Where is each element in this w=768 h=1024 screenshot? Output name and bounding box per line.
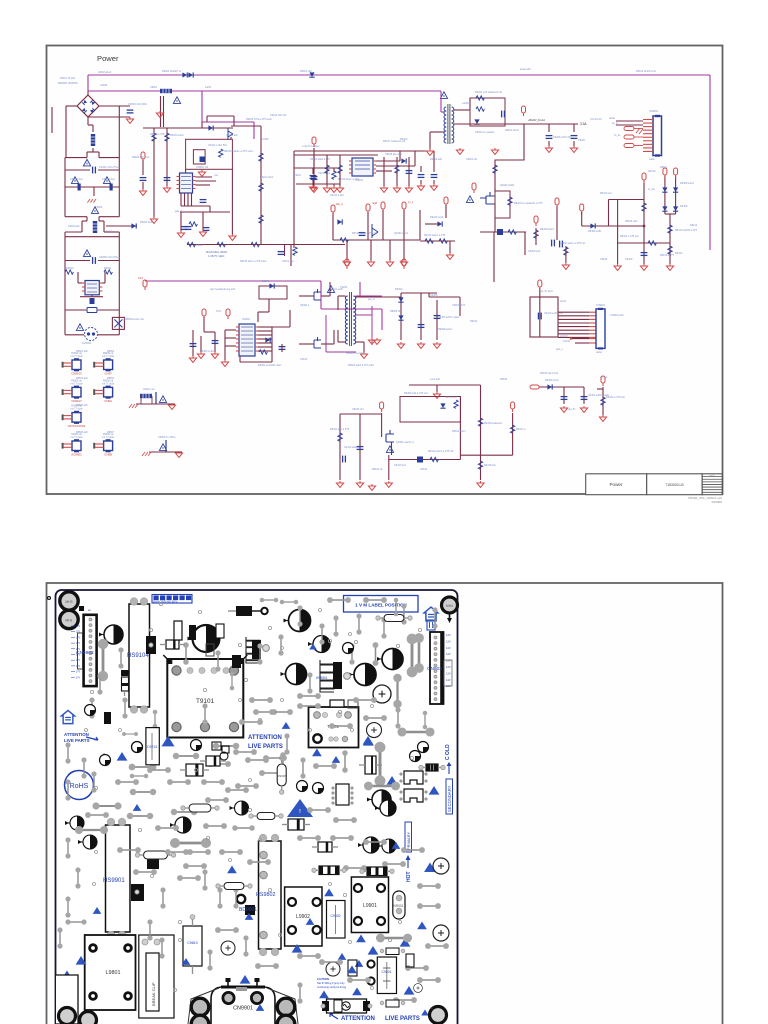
svg-text:17V: 17V	[76, 637, 81, 639]
svg-text:L9004 a20: L9004 a20	[68, 225, 80, 228]
svg-text:mit 77 dcde: mit 77 dcde	[70, 408, 83, 411]
svg-text:3.3A: 3.3A	[580, 122, 587, 126]
svg-text:R9048: R9048	[278, 774, 287, 778]
svg-text:1 V M LABEL POSITION: 1 V M LABEL POSITION	[355, 603, 407, 608]
svg-text:vd_det: vd_det	[600, 376, 608, 379]
svg-text:D9305 sbr: D9305 sbr	[390, 310, 401, 313]
svg-text:D9301 ss14de0 dasc: D9301 ss14de0 dasc	[258, 364, 282, 367]
svg-text:12V: 12V	[446, 671, 451, 675]
svg-text:D9004 dcde: D9004 dcde	[140, 221, 154, 224]
svg-text:CN902: CN902	[427, 666, 442, 672]
svg-text:R9330: R9330	[500, 378, 508, 381]
svg-text:AC1: AC1	[138, 276, 144, 280]
svg-text:mit 77 dcde: mit 77 dcde	[102, 436, 115, 439]
svg-text:C9305: C9305	[430, 294, 438, 297]
svg-text:L9202 adcm a 4T5 ctd: L9202 adcm a 4T5 ctd	[560, 242, 585, 245]
svg-text:C9340 n47: C9340 n47	[352, 408, 364, 411]
svg-text:mit 77 dcde: mit 77 dcde	[70, 436, 83, 439]
svg-text:D9320 ss14: D9320 ss14	[545, 379, 559, 382]
svg-text:a 4g 471 s dasc: a 4g 471 s dasc	[302, 145, 320, 148]
svg-text:L9002 wired: L9002 wired	[98, 71, 112, 74]
svg-text:to_sec: to_sec	[648, 188, 656, 191]
svg-text:opto feedback loop a20: opto feedback loop a20	[210, 288, 236, 291]
svg-text:7153003.LB: 7153003.LB	[665, 483, 684, 487]
svg-text:Q9301 sasct1 d: Q9301 sasct1 d	[396, 441, 414, 444]
svg-text:12V: 12V	[446, 678, 451, 682]
svg-text:R9401: R9401	[660, 166, 668, 169]
svg-text:vref: vref	[214, 174, 218, 177]
svg-text:C9810: C9810	[187, 941, 198, 945]
svg-text:D9345 ss14 smd: D9345 ss14 smd	[540, 372, 559, 375]
svg-text:R9320 ade0 a 4T5 sckm: R9320 ade0 a 4T5 sckm	[348, 364, 374, 367]
svg-text:acdet: acdet	[609, 117, 615, 120]
svg-text:17V: 17V	[76, 655, 81, 657]
svg-text:out12: out12	[560, 300, 567, 303]
svg-text:R9416 a 4T5: R9416 a 4T5	[660, 254, 674, 257]
svg-text:AC9001: AC9001	[82, 341, 92, 345]
svg-text:C9204 sn sadasc: C9204 sn sadasc	[475, 131, 495, 134]
svg-text:17V: 17V	[76, 672, 81, 674]
svg-text:HS9801: HS9801	[316, 676, 328, 680]
svg-text:ATTENTION: ATTENTION	[248, 735, 282, 741]
svg-text:L9001 coil: L9001 coil	[143, 388, 155, 391]
svg-text:continuing verify be lit leg: continuing verify be lit leg	[317, 985, 347, 989]
svg-text:R9130 adcm a 4T5 sckm: R9130 adcm a 4T5 sckm	[240, 260, 267, 263]
svg-text:R9208 adcm: R9208 adcm	[540, 228, 554, 231]
svg-text:D9410: D9410	[648, 170, 656, 173]
svg-text:12Vsb: 12Vsb	[563, 340, 571, 343]
svg-text:R9103 sckm: R9103 sckm	[170, 134, 184, 137]
svg-text:CN9B: CN9B	[104, 453, 112, 457]
svg-text:R9311 ad0 a 4T5: R9311 ad0 a 4T5	[330, 428, 350, 431]
svg-text:F9001 T3.15A: F9001 T3.15A	[60, 77, 76, 80]
svg-text:R9411 a 4T5 sck: R9411 a 4T5 sck	[620, 235, 639, 238]
svg-text:bck_a: bck_a	[336, 203, 343, 206]
svg-text:C9003 2n2: C9003 2n2	[70, 177, 83, 181]
svg-text:17V: 17V	[76, 677, 81, 679]
svg-text:wafer: wafer	[649, 158, 655, 161]
svg-text:R9306 ad0 a 4T5 ctd: R9306 ad0 a 4T5 ctd	[404, 392, 428, 395]
svg-text:12V: 12V	[446, 665, 451, 669]
svg-text:C9303 a 4bc: C9303 a 4bc	[200, 350, 215, 353]
svg-text:C9108 abe smd: C9108 abe smd	[385, 153, 403, 156]
svg-text:HS9802: HS9802	[256, 892, 275, 898]
svg-text:CN9A: CN9A	[104, 399, 112, 403]
svg-text:L9003: L9003	[100, 83, 108, 87]
svg-text:gnd_s: gnd_s	[556, 348, 563, 351]
svg-text:vc_c: vc_c	[408, 201, 414, 204]
svg-text:17V: 17V	[76, 643, 81, 645]
svg-text:gate dr: gate dr	[175, 210, 183, 213]
svg-text:D9002 1N4007 x2: D9002 1N4007 x2	[162, 70, 182, 73]
svg-text:snb09: snb09	[462, 102, 469, 105]
svg-text:C9203 ctd: C9203 ctd	[466, 158, 478, 161]
svg-text:12V: 12V	[446, 652, 451, 656]
svg-text:D9406 ctd9: D9406 ctd9	[588, 230, 601, 233]
svg-text:C9004 2n2: C9004 2n2	[102, 177, 115, 181]
svg-text:LIVE PARTS: LIVE PARTS	[385, 1016, 420, 1022]
svg-text:sec_w: sec_w	[368, 298, 375, 301]
svg-text:ATTENTION: ATTENTION	[64, 732, 89, 737]
svg-text:acdet a20: acdet a20	[520, 68, 531, 71]
svg-text:stby5V: stby5V	[560, 335, 568, 338]
svg-text:L9902: L9902	[296, 914, 310, 920]
svg-text:020909: 020909	[712, 500, 723, 504]
svg-text:R9410 ctd: R9410 ctd	[600, 192, 612, 195]
svg-text:C9312 ad0cm: C9312 ad0cm	[344, 446, 360, 449]
svg-text:R9104 ade0 a 4T5: R9104 ade0 a 4T5	[310, 158, 330, 161]
svg-text:mit 77 dcde: mit 77 dcde	[102, 382, 115, 385]
svg-text:R9010: R9010	[66, 266, 74, 270]
svg-text:R9413 s0d34 a 4T5: R9413 s0d34 a 4T5	[675, 229, 698, 232]
svg-text:BD9001 2KBP06: BD9001 2KBP06	[58, 81, 78, 85]
svg-text:SW9001 tact mkr: SW9001 tact mkr	[124, 317, 144, 321]
svg-text:C9104 a 4bc 50v: C9104 a 4bc 50v	[208, 144, 228, 147]
svg-text:R9201 sn0 sadasct1 ctd: R9201 sn0 sadasct1 ctd	[475, 91, 502, 94]
svg-text:CN9901: CN9901	[233, 1006, 253, 1012]
svg-text:R9501 a20: R9501 a20	[76, 350, 88, 353]
svg-text:D9106 ss14: D9106 ss14	[430, 216, 444, 219]
svg-text:CN9107: CN9107	[71, 399, 82, 403]
svg-text:R9124 adcm a 4T5: R9124 adcm a 4T5	[424, 234, 446, 237]
svg-text:17V: 17V	[76, 649, 81, 651]
svg-text:SECONDARY: SECONDARY	[447, 785, 452, 812]
svg-text:R9012 1k/2W smd: R9012 1k/2W smd	[636, 70, 656, 73]
svg-text:C9101 n10 275v~: C9101 n10 275v~	[99, 165, 120, 169]
svg-text:Q9001 2sk: Q9001 2sk	[226, 134, 238, 137]
svg-text:C OLD: C OLD	[445, 744, 451, 760]
svg-text:mit 77 dcde: mit 77 dcde	[70, 382, 83, 385]
svg-text:C9209 sn0: C9209 sn0	[528, 250, 541, 253]
svg-text:C9701/C9702: C9701/C9702	[68, 424, 86, 428]
svg-text:D9303: D9303	[262, 280, 270, 283]
svg-text:C9313 ss0: C9313 ss0	[394, 464, 407, 467]
svg-text:PRIMARY: PRIMARY	[406, 832, 411, 850]
svg-text:D9302: D9302	[395, 288, 403, 291]
svg-text:CAUTION: CAUTION	[317, 977, 329, 981]
svg-text:R9011: R9011	[104, 266, 112, 270]
svg-text:RoHS: RoHS	[70, 783, 89, 790]
svg-text:R9001 s20: R9001 s20	[300, 70, 312, 73]
svg-text:C9406: C9406	[600, 258, 608, 261]
svg-text:ATTENTION: ATTENTION	[341, 1016, 375, 1022]
svg-text:R9507: R9507	[107, 431, 115, 434]
svg-text:17V: 17V	[76, 626, 81, 628]
svg-text:HS9901: HS9901	[103, 878, 125, 884]
svg-text:Q9302 a: Q9302 a	[300, 304, 310, 307]
svg-text:R9309 adcm: R9309 adcm	[438, 328, 452, 331]
svg-text:R9414: R9414	[675, 252, 683, 255]
svg-text:R9121 sckt1 a 4T5 ctd: R9121 sckt1 a 4T5 ctd	[352, 232, 378, 235]
svg-text:L9801: L9801	[106, 970, 121, 976]
svg-text:R9502: R9502	[107, 350, 115, 353]
svg-text:LIVE PARTS: LIVE PARTS	[248, 744, 283, 750]
svg-text:R9102 a 4T5: R9102 a 4T5	[150, 133, 165, 136]
svg-text:MH3: MH3	[65, 600, 72, 604]
svg-text:C9315: C9315	[300, 358, 308, 361]
svg-text:R9203 ad0: R9203 ad0	[430, 158, 442, 161]
svg-text:mit 77 dcde: mit 77 dcde	[102, 355, 115, 358]
svg-text:9V: 9V	[400, 260, 403, 263]
svg-text:R9322 a 4T5 sck: R9322 a 4T5 sck	[606, 396, 626, 399]
svg-text:R9317 a: R9317 a	[516, 428, 526, 431]
svg-text:R9316 sadasct1: R9316 sadasct1	[484, 422, 503, 425]
svg-text:D9409 sckt1: D9409 sckt1	[680, 182, 695, 185]
svg-text:IC9101: IC9101	[355, 179, 364, 182]
svg-text:BD9901: BD9901	[239, 907, 257, 913]
svg-text:wafer: wafer	[596, 351, 602, 354]
svg-text:12V: 12V	[446, 646, 451, 650]
svg-text:R9015 470k a 4T5 sckm: R9015 470k a 4T5 sckm	[246, 118, 272, 121]
svg-text:R9105 adbam a 4T5 sckm: R9105 adbam a 4T5 sckm	[224, 150, 253, 153]
svg-text:Power: Power	[609, 482, 622, 487]
svg-text:L9901: L9901	[363, 903, 377, 909]
svg-text:R9504: R9504	[107, 377, 115, 380]
svg-text:C9207: C9207	[578, 139, 586, 142]
svg-text:C9206 a470 25v: C9206 a470 25v	[553, 136, 572, 139]
svg-text:1.06/75. GEN: 1.06/75. GEN	[208, 254, 224, 258]
svg-text:C9006 n33 400v: C9006 n33 400v	[128, 102, 148, 106]
svg-text:C9306 a470 s dasc: C9306 a470 s dasc	[438, 316, 460, 319]
svg-text:C9014 102 1kV: C9014 102 1kV	[270, 114, 287, 117]
svg-text:BREAK CLIP: BREAK CLIP	[151, 982, 156, 1006]
svg-text:MH1: MH1	[65, 619, 72, 623]
svg-text:wire b: wire b	[106, 230, 113, 233]
svg-text:snub a20: snub a20	[430, 378, 441, 381]
svg-text:Q9202 skt0d: Q9202 skt0d	[500, 184, 515, 187]
svg-text:transformer br08: transformer br08	[346, 352, 365, 355]
svg-text:IC9001 ctd: IC9001 ctd	[196, 166, 209, 169]
svg-text:CN9401 a20: CN9401 a20	[610, 314, 624, 317]
svg-text:R9342 s0: R9342 s0	[372, 468, 383, 471]
svg-text:VCC: VCC	[216, 310, 221, 313]
svg-text:Net th Wfing if gnty onty: Net th Wfing if gnty onty	[317, 981, 345, 985]
svg-text:D9103: D9103	[400, 138, 408, 141]
svg-text:R9341 adcm: R9341 adcm	[452, 430, 466, 433]
svg-text:D9304 ctd: D9304 ctd	[445, 396, 457, 399]
svg-text:CN pins 10: CN pins 10	[590, 118, 602, 121]
svg-text:R9318 sck: R9318 sck	[484, 464, 497, 467]
svg-text:C9131 abe: C9131 abe	[282, 260, 294, 263]
svg-text:T9001: T9001	[95, 205, 103, 209]
svg-text:HS9104: HS9104	[127, 653, 149, 659]
svg-text:C9001: C9001	[150, 86, 158, 89]
svg-text:out_5v lines: out_5v lines	[540, 290, 554, 293]
svg-text:CN9103: CN9103	[71, 372, 82, 376]
svg-text:T9201 ee25: T9201 ee25	[330, 288, 343, 291]
svg-text:n9_a: n9_a	[342, 260, 348, 263]
svg-text:reg5: reg5	[372, 202, 378, 205]
svg-text:CN9401: CN9401	[596, 304, 606, 307]
svg-text:C9112 a 4bc: C9112 a 4bc	[330, 194, 345, 197]
svg-text:R9505 a20: R9505 a20	[76, 404, 88, 407]
svg-text:C9120: C9120	[196, 244, 204, 247]
svg-text:12V: 12V	[446, 633, 451, 637]
svg-text:+B/24V_Fmod: +B/24V_Fmod	[528, 118, 545, 122]
svg-text:R9314 adcm a 4T5 ctd: R9314 adcm a 4T5 ctd	[428, 450, 454, 453]
svg-text:R9206 sn sadasct1 a 4T5: R9206 sn sadasct1 a 4T5	[514, 202, 543, 205]
svg-text:R9110 s0ct1: R9110 s0ct1	[260, 176, 274, 179]
svg-text:D9201 sbr10: D9201 sbr10	[505, 129, 519, 132]
svg-text:17V: 17V	[76, 666, 81, 668]
svg-text:C9005 1n 250v~: C9005 1n 250v~	[158, 436, 177, 439]
svg-text:hv_dc: hv_dc	[614, 134, 621, 137]
svg-text:C9307 a470: C9307 a470	[452, 304, 466, 307]
svg-text:AC9001: AC9001	[71, 453, 82, 457]
svg-text:IC9301: IC9301	[242, 318, 251, 321]
svg-text:C9110: C9110	[294, 174, 302, 177]
svg-text:Q9102 asct1: Q9102 asct1	[394, 232, 409, 235]
svg-text:rev 0a: rev 0a	[710, 475, 715, 477]
svg-text:CN9?: CN9?	[104, 372, 112, 376]
svg-text:DANGER HV 2KV: DANGER HV 2KV	[153, 600, 177, 604]
svg-text:ac_in: ac_in	[612, 122, 619, 125]
svg-text:MH4: MH4	[446, 604, 453, 608]
svg-text:17V: 17V	[76, 660, 81, 662]
svg-text:zcd09: zcd09	[262, 138, 269, 141]
svg-text:Power: Power	[97, 54, 119, 63]
svg-text:R9406 sck1: R9406 sck1	[625, 220, 638, 223]
svg-text:LIVE PARTS: LIVE PARTS	[64, 738, 90, 743]
svg-text:17V: 17V	[76, 632, 81, 634]
svg-text:C9008 n10 275v~: C9008 n10 275v~	[99, 255, 120, 259]
svg-text:12V: 12V	[446, 659, 451, 663]
svg-text:R9020 a20 smd: R9020 a20 smd	[132, 156, 150, 159]
svg-text:NR901: NR901	[394, 904, 404, 908]
svg-text:C9409: C9409	[625, 258, 633, 261]
svg-text:HOT: HOT	[406, 871, 412, 882]
svg-text:D9408: D9408	[680, 205, 688, 208]
svg-text:det_5v: det_5v	[568, 408, 576, 411]
svg-text:12V: 12V	[446, 639, 451, 643]
svg-text:MAIN REG./MOD: MAIN REG./MOD	[206, 250, 227, 254]
svg-text:R9506 a20: R9506 a20	[76, 431, 88, 434]
svg-text:C9343: C9343	[420, 468, 428, 471]
svg-text:R9503 a20: R9503 a20	[76, 377, 88, 380]
svg-text:mit 77 dcde: mit 77 dcde	[70, 355, 83, 358]
svg-text:tnk09: tnk09	[205, 86, 212, 89]
svg-text:R9310: R9310	[470, 320, 478, 323]
svg-text:CN9201: CN9201	[649, 110, 659, 113]
svg-text:D9412: D9412	[690, 224, 698, 227]
